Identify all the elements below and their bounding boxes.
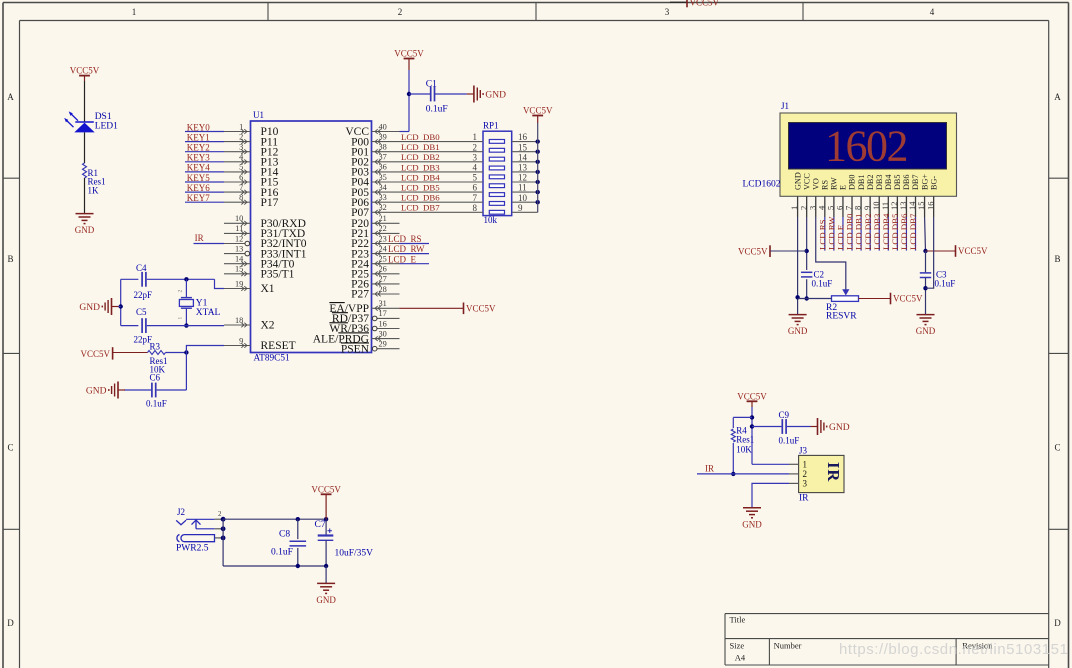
svg-text:1: 1 [473,132,478,142]
svg-text:8: 8 [473,203,478,213]
svg-text:4: 4 [473,163,478,173]
svg-text:XTAL: XTAL [196,308,221,318]
svg-text:C: C [7,442,13,452]
svg-text:GND: GND [788,326,808,336]
svg-text:LCD DB1: LCD DB1 [401,142,440,152]
svg-text:10: 10 [518,193,528,203]
svg-text:12: 12 [235,234,243,243]
svg-text:Number: Number [774,641,802,651]
svg-text:VO: VO [811,178,820,190]
svg-text:A4: A4 [735,653,746,663]
svg-text:C9: C9 [779,410,790,420]
svg-text:BG-: BG- [929,176,938,190]
svg-text:14: 14 [518,152,528,162]
svg-text:GND: GND [742,519,762,529]
svg-text:DB7: DB7 [911,175,920,190]
svg-text:D: D [7,618,14,628]
svg-text:C6: C6 [150,372,161,382]
svg-text:9: 9 [518,203,523,213]
svg-text:LCD DB0: LCD DB0 [401,132,440,142]
svg-text:C1: C1 [426,80,437,90]
svg-text:0.1uF: 0.1uF [812,279,833,289]
svg-text:LCD DB7: LCD DB7 [908,213,918,250]
svg-text:16: 16 [518,132,528,142]
svg-text:LCD DB5: LCD DB5 [401,183,440,193]
svg-text:LCD DB3: LCD DB3 [401,162,440,172]
svg-text:RESET: RESET [261,340,296,352]
svg-text:P35/T1: P35/T1 [261,269,295,281]
svg-text:13: 13 [235,244,243,253]
svg-text:LCD RW: LCD RW [388,244,425,254]
svg-text:1: 1 [803,460,808,470]
svg-text:0.1uF: 0.1uF [271,548,293,558]
svg-text:KEY3: KEY3 [187,153,210,163]
svg-text:5: 5 [473,173,478,183]
svg-text:P17: P17 [261,197,279,209]
svg-text:10K: 10K [736,445,752,455]
svg-text:1: 1 [132,7,137,17]
svg-text:0.1uF: 0.1uF [779,436,800,446]
svg-text:VCC5V: VCC5V [466,304,496,314]
svg-text:X1: X1 [261,283,275,295]
svg-text:https://blog.csdn.net/lin51031: https://blog.csdn.net/lin5103151 [839,641,1068,658]
svg-text:12: 12 [518,173,527,183]
svg-text:GND: GND [793,172,802,190]
svg-text:15: 15 [518,142,528,152]
svg-text:GND: GND [75,225,95,235]
svg-text:IR: IR [824,462,843,482]
svg-text:GND: GND [485,90,506,100]
svg-text:VCC5V: VCC5V [311,484,341,494]
svg-text:LCD E: LCD E [388,254,417,264]
svg-text:16: 16 [379,319,387,328]
svg-text:4: 4 [930,7,935,17]
svg-text:Size: Size [730,641,745,651]
svg-text:16: 16 [925,202,935,211]
svg-text:VCC5V: VCC5V [80,349,110,359]
svg-text:29: 29 [379,340,387,349]
svg-text:0.1uF: 0.1uF [935,279,956,289]
svg-text:DB5: DB5 [893,175,902,190]
svg-text:3: 3 [665,7,670,17]
svg-text:6: 6 [473,183,478,193]
svg-text:A: A [7,92,14,102]
svg-text:LCD RS: LCD RS [388,234,422,244]
svg-text:2: 2 [178,290,184,293]
svg-text:RP1: RP1 [483,120,499,130]
svg-text:AT89C51: AT89C51 [254,354,291,364]
svg-text:2: 2 [803,469,808,479]
svg-text:VCC5V: VCC5V [958,246,988,256]
svg-text:BG+: BG+ [920,174,929,190]
svg-text:1602: 1602 [825,122,907,171]
svg-text:RW: RW [830,177,839,190]
svg-text:GND: GND [86,386,107,396]
svg-text:DB2: DB2 [866,175,875,190]
svg-text:GND: GND [316,595,336,605]
svg-text:KEY7: KEY7 [187,193,210,203]
svg-text:KEY2: KEY2 [187,143,210,153]
svg-text:KEY6: KEY6 [187,183,210,193]
svg-text:17: 17 [379,309,387,318]
svg-text:DB0: DB0 [848,175,857,190]
svg-text:VCC5V: VCC5V [893,294,923,304]
svg-text:GND: GND [916,326,936,336]
svg-text:11: 11 [518,183,527,193]
svg-text:C7: C7 [315,520,326,530]
svg-text:A: A [1054,92,1061,102]
svg-text:13: 13 [518,163,528,173]
svg-text:Res1: Res1 [736,434,754,444]
svg-text:IR: IR [799,493,809,503]
svg-text:VCC5V: VCC5V [70,66,100,76]
svg-text:0.1uF: 0.1uF [426,105,448,115]
svg-text:2: 2 [398,7,403,17]
svg-text:D: D [1054,618,1061,628]
svg-text:LED1: LED1 [95,122,118,132]
svg-text:22pF: 22pF [134,290,153,300]
svg-text:C4: C4 [136,263,147,273]
svg-text:GND: GND [79,303,100,313]
svg-text:KEY1: KEY1 [187,132,210,142]
svg-text:VCC5V: VCC5V [737,391,767,401]
svg-text:PWR2.5: PWR2.5 [176,544,209,554]
svg-text:LCD DB2: LCD DB2 [401,152,440,162]
svg-text:LCD DB6: LCD DB6 [401,193,440,203]
svg-text:LCD DB7: LCD DB7 [401,203,440,213]
svg-text:VCC: VCC [802,173,811,190]
svg-text:VCC5V: VCC5V [523,106,553,116]
svg-text:GND: GND [829,423,850,433]
svg-text:VCC5V: VCC5V [690,0,720,7]
svg-text:LCD DB4: LCD DB4 [401,172,440,182]
svg-text:B: B [1054,254,1060,264]
svg-text:B: B [7,254,13,264]
svg-text:DB3: DB3 [875,175,884,190]
svg-text:LCD1602: LCD1602 [743,180,781,190]
svg-text:3: 3 [803,479,808,489]
svg-text:C8: C8 [279,530,290,540]
svg-text:VCC5V: VCC5V [394,49,424,59]
svg-text:DB6: DB6 [902,175,911,190]
svg-text:U1: U1 [253,110,264,120]
svg-text:J3: J3 [799,446,808,456]
svg-text:KEY0: KEY0 [187,122,210,132]
svg-text:DB4: DB4 [884,175,893,190]
svg-text:J2: J2 [177,507,185,517]
svg-text:RESVR: RESVR [826,312,857,322]
svg-text:R3: R3 [150,341,161,351]
svg-text:KEY5: KEY5 [187,173,210,183]
svg-text:C5: C5 [136,307,147,317]
svg-text:1K: 1K [88,186,100,196]
svg-text:0.1uF: 0.1uF [146,399,167,409]
svg-text:E: E [839,185,848,190]
svg-text:DB1: DB1 [857,175,866,190]
svg-text:10uF/35V: 10uF/35V [335,549,374,559]
svg-text:J1: J1 [781,101,789,111]
svg-text:X2: X2 [261,320,275,332]
svg-text:IR: IR [705,463,714,473]
svg-text:1: 1 [178,317,184,320]
svg-text:2: 2 [473,142,478,152]
svg-text:PSEN: PSEN [341,343,370,355]
svg-text:RS: RS [821,180,830,190]
svg-text:VCC5V: VCC5V [738,246,768,256]
svg-text:2: 2 [218,510,222,518]
svg-text:KEY4: KEY4 [187,163,210,173]
svg-text:7: 7 [473,193,478,203]
svg-text:10k: 10k [484,215,498,225]
svg-text:DS1: DS1 [95,112,112,122]
svg-text:P27: P27 [351,289,369,301]
svg-text:C: C [1054,442,1060,452]
svg-text:IR: IR [195,233,204,243]
svg-text:3: 3 [473,152,478,162]
svg-text:Title: Title [730,615,746,625]
